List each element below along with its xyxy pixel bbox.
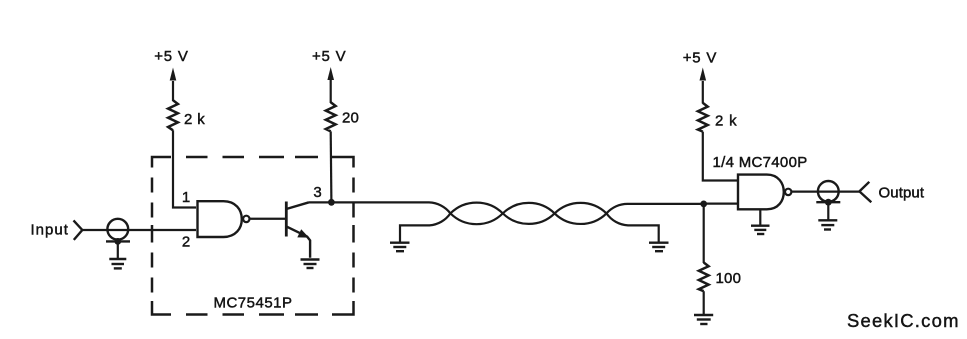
- svg-text:+5 V: +5 V: [683, 50, 717, 67]
- wire node to R4: [703, 204, 705, 263]
- svg-text:MC75451P: MC75451P: [213, 295, 292, 312]
- wire R2 to node 3: [330, 131, 333, 202]
- junction node 3: [328, 199, 335, 206]
- input connector circle J1: [107, 219, 128, 240]
- junction node (line end): [700, 201, 707, 208]
- output chevron connector: [859, 182, 871, 203]
- wire gate ground stub: [759, 209, 761, 225]
- wire gate output to output connector: [792, 191, 860, 193]
- svg-text:3: 3: [313, 184, 321, 201]
- svg-text:2 k: 2 k: [184, 111, 205, 128]
- ground (twisted pair left): [390, 243, 410, 252]
- wire R1 to gate input 1: [173, 130, 196, 207]
- svg-text:2 k: 2 k: [715, 113, 737, 130]
- ground (R4): [694, 315, 713, 324]
- svg-text:100: 100: [716, 270, 742, 287]
- output connector shield line and junction: [816, 199, 840, 220]
- wire gate output to Q1 base: [251, 218, 287, 220]
- svg-text:20: 20: [342, 110, 359, 127]
- svg-text:1: 1: [182, 189, 190, 206]
- svg-text:Output: Output: [879, 185, 925, 202]
- ground (output connector): [818, 220, 837, 229]
- svg-text:1/4 MC7400P: 1/4 MC7400P: [713, 154, 808, 171]
- resistor R3 2k: [698, 103, 738, 132]
- svg-text:+5 V: +5 V: [312, 48, 346, 65]
- resistor R1 2k: [168, 100, 205, 130]
- svg-text:Input: Input: [31, 222, 69, 239]
- +5V arrow (left): [170, 68, 177, 102]
- wire: twisted pair top conductor: [309, 202, 704, 224]
- input connector shield line and junction: [106, 238, 130, 258]
- ground (Q1 emitter): [301, 260, 320, 269]
- +5V arrow (middle): [327, 67, 334, 103]
- ground (U2): [751, 226, 770, 234]
- svg-text:SeekIC.com: SeekIC.com: [847, 310, 960, 331]
- transistor Q1: [286, 202, 310, 258]
- resistor R2 20: [326, 102, 359, 131]
- ground (input connector): [109, 259, 126, 268]
- resistor R4 100: [699, 263, 741, 292]
- dashed package box MC75451P: [152, 157, 354, 315]
- input chevron connector: [74, 220, 83, 240]
- wire R3 to gate input: [703, 132, 738, 181]
- wire: twisted pair return conductor: [400, 203, 659, 242]
- wire input to gate input 2: [82, 229, 196, 231]
- +5V arrow (right): [700, 68, 707, 104]
- svg-text:+5 V: +5 V: [154, 48, 188, 65]
- wire node to gate input: [704, 203, 738, 205]
- NAND gate U1 (driver): [198, 201, 250, 237]
- output connector circle J2: [818, 181, 839, 202]
- wire R4 to ground: [703, 291, 705, 314]
- svg-text:2: 2: [182, 234, 190, 251]
- ground (twisted pair right): [649, 243, 669, 252]
- NAND gate U2 (receiver): [738, 175, 791, 210]
